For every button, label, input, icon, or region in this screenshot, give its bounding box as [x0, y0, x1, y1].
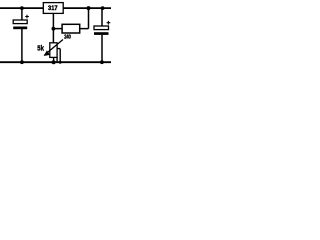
- svg-text:240: 240: [64, 35, 71, 41]
- svg-text:5k: 5k: [37, 45, 44, 52]
- svg-text:317: 317: [48, 5, 58, 12]
